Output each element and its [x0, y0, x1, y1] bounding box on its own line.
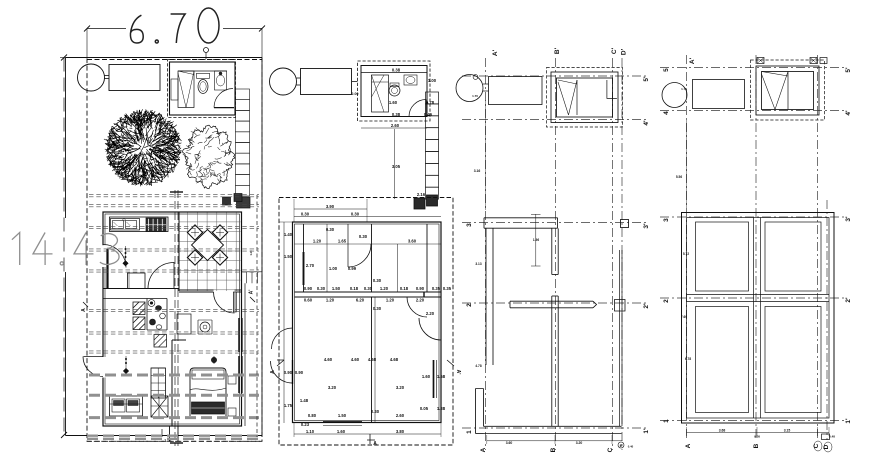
svg-text:1.60: 1.60: [389, 100, 398, 105]
svg-text:3.68: 3.68: [719, 429, 726, 433]
p2 door arc mid: [407, 297, 427, 317]
svg-text:3.90: 3.90: [326, 204, 335, 209]
svg-text:1.20: 1.20: [386, 298, 395, 303]
svg-text:1': 1': [845, 418, 852, 424]
mini dim living: [125, 356, 127, 372]
bath door arc: [214, 89, 233, 108]
p4 bathroom dashed box: [751, 60, 825, 120]
right wall window dark bar 2: [238, 356, 240, 393]
living sofa: [110, 396, 143, 416]
washing machine hatched 2: [133, 317, 145, 330]
svg-text:0.35: 0.35: [432, 286, 441, 291]
svg-text:1.20: 1.20: [249, 250, 253, 256]
svg-text:0.30: 0.30: [351, 212, 360, 217]
dimension 14.43 left: [63, 58, 65, 436]
svg-text:2.20: 2.20: [426, 311, 435, 316]
svg-text:1.75: 1.75: [284, 403, 293, 408]
interior wall bedroom: [171, 340, 173, 426]
svg-text:0.38: 0.38: [392, 112, 401, 117]
p3 bath door leaf: [576, 80, 578, 115]
dim 2.60 below bath: [361, 127, 427, 129]
p4 inner cell rects: [696, 222, 749, 291]
kitchen-hall door leaf: [173, 262, 175, 289]
p3 grid horizontals: [462, 75, 648, 77]
p3 foundation strip B upper stub: [551, 228, 553, 274]
svg-text:B': B': [554, 47, 561, 54]
svg-text:1.50: 1.50: [332, 286, 341, 291]
svg-text:1.70: 1.70: [472, 94, 478, 98]
svg-text:0.30: 0.30: [364, 286, 373, 291]
section line vertical pair: [174, 190, 176, 446]
svg-text:3.60: 3.60: [506, 441, 513, 445]
wc enclosure walls: [103, 298, 167, 300]
svg-text:A: A: [373, 441, 377, 447]
bath left radiator: [171, 79, 178, 100]
p3 septic rect: [489, 77, 543, 105]
svg-text:2': 2': [845, 297, 852, 303]
svg-text:3': 3': [643, 223, 650, 229]
outbuilding bathroom walls: [170, 62, 236, 115]
p2 porch arc: [272, 328, 293, 349]
svg-text:0.18: 0.18: [350, 286, 359, 291]
bath p2 bed: [372, 75, 389, 112]
kitchen bottom wall: [103, 288, 179, 290]
washing machine hatched 1: [133, 302, 145, 315]
svg-text:4.68: 4.68: [390, 357, 399, 362]
p4 bathroom double walls: [756, 66, 819, 115]
porch door arc west: [83, 357, 103, 377]
p2 bottom dim chain: [294, 433, 441, 435]
p4 septic rect: [693, 80, 745, 109]
porch door leaf west: [84, 356, 104, 358]
door arc kitchen west: [103, 245, 126, 268]
svg-text:3.20: 3.20: [576, 441, 583, 445]
text 6.70 stick font: [130, 15, 143, 43]
septic tank rect: [109, 65, 160, 91]
bath p2 door arc: [409, 100, 426, 117]
roof heavy gray dashed bands: [89, 374, 259, 377]
svg-text:5.56: 5.56: [676, 175, 682, 179]
svg-text:E: E: [620, 443, 623, 448]
p3 foundation strip left: [485, 228, 487, 365]
stairs hatch box bottom: [151, 396, 168, 417]
svg-text:1.96: 1.96: [533, 238, 539, 242]
section flag top: [170, 191, 183, 193]
west radiator dark bar: [106, 249, 108, 288]
svg-text:2: 2: [466, 303, 473, 307]
bed bedroom1: [190, 368, 226, 416]
svg-text:3.05: 3.05: [392, 164, 401, 169]
svg-text:3.20: 3.20: [328, 385, 337, 390]
p2 inner walls: [303, 224, 305, 292]
kitchen-hall door arc: [148, 263, 174, 289]
p3 small box grid3 right: [621, 220, 629, 228]
p2 door arc room1: [348, 244, 371, 267]
west wall door opening kitchen: [101, 245, 107, 267]
p3 bath step notch: [607, 80, 617, 98]
svg-text:1.20: 1.20: [313, 239, 322, 244]
svg-text:0.40: 0.40: [628, 445, 634, 449]
east walkway steps: [242, 271, 263, 273]
svg-text:0.35: 0.35: [443, 286, 452, 291]
bathroom p2 walls: [361, 66, 427, 117]
svg-text:3: 3: [466, 223, 473, 227]
svg-text:2.60: 2.60: [396, 413, 405, 418]
svg-text:1': 1': [643, 428, 650, 434]
p3 right wall thin: [619, 250, 621, 426]
svg-text:1.70: 1.70: [681, 87, 687, 91]
svg-text:0.18: 0.18: [400, 286, 409, 291]
svg-text:D': D': [621, 48, 628, 55]
p4 grid verticals: [686, 55, 688, 440]
p3 bottom dims: [487, 440, 623, 442]
svg-text:0.78: 0.78: [426, 100, 435, 105]
svg-text:0.30: 0.30: [373, 278, 382, 283]
svg-text:0.30: 0.30: [371, 409, 380, 414]
svg-text:A: A: [270, 370, 276, 374]
p4 bottom dims: [687, 432, 830, 434]
p2 section marks sides: [277, 360, 284, 366]
svg-text:0.90: 0.90: [416, 286, 425, 291]
house outer walls: [103, 212, 242, 426]
dark pad below stairs: [237, 197, 251, 208]
gate mark bottom: [169, 426, 171, 441]
bath sink: [215, 71, 227, 90]
svg-text:C: C: [607, 447, 614, 452]
p3 bathroom double walls: [551, 72, 618, 123]
septic circle p2: [270, 68, 297, 95]
dark pads p2: [414, 198, 425, 209]
svg-text:4.78: 4.78: [475, 364, 481, 368]
bathroom p2 dashed box: [358, 61, 431, 121]
kitchen stove dark block: [146, 218, 166, 232]
p3 right stub grid2: [615, 300, 626, 312]
svg-text:5': 5': [845, 67, 852, 73]
wardrobe shelves: [151, 368, 166, 398]
svg-text:0.38: 0.38: [392, 68, 401, 73]
p4 column markers top: [757, 58, 764, 64]
svg-text:4.68: 4.68: [368, 357, 377, 362]
bath p2 toilet: [389, 85, 400, 96]
kitchen counter top wall: [110, 217, 169, 232]
p3 bottom strip: [484, 425, 622, 427]
svg-text:A': A': [455, 370, 461, 375]
svg-text:4: 4: [663, 111, 670, 115]
svg-text:4.60: 4.60: [351, 357, 360, 362]
roof thin dashed line pairs: [89, 194, 259, 196]
tree 2 outline scribble: [182, 125, 235, 189]
svg-text:1.38: 1.38: [437, 406, 446, 411]
house p2 outer walls: [293, 222, 442, 423]
svg-text:0.30: 0.30: [326, 227, 335, 232]
dining chairs: [187, 225, 202, 240]
svg-text:2.70: 2.70: [306, 263, 315, 268]
svg-text:1.00: 1.00: [428, 78, 437, 83]
svg-text:0.30: 0.30: [373, 306, 382, 311]
svg-text:1.65: 1.65: [338, 239, 347, 244]
svg-text:1.68: 1.68: [437, 374, 446, 379]
svg-text:1.00: 1.00: [329, 266, 338, 271]
p2 section mark bottom: [367, 434, 375, 444]
bath door leaf: [214, 107, 234, 109]
p3 septic circle: [456, 75, 483, 102]
armchair person figure: [200, 322, 210, 332]
svg-text:0.05: 0.05: [420, 406, 429, 411]
svg-text:0.60: 0.60: [304, 298, 313, 303]
svg-text:1.60: 1.60: [337, 429, 346, 434]
veranda door arc: [214, 292, 235, 313]
svg-text:1.60: 1.60: [422, 374, 431, 379]
svg-text:0.30: 0.30: [359, 234, 368, 239]
svg-text:A: A: [480, 447, 487, 452]
bath bed: [178, 71, 194, 108]
svg-text:3: 3: [663, 218, 670, 222]
site dashed boundary: [87, 60, 262, 442]
svg-text:C': C': [611, 47, 618, 54]
svg-text:0.90: 0.90: [295, 370, 304, 375]
svg-text:A': A': [689, 57, 696, 64]
svg-text:3.60: 3.60: [408, 239, 417, 244]
svg-text:5': 5': [643, 76, 650, 82]
svg-text:1.20: 1.20: [380, 286, 389, 291]
p4 beam outer rect: [682, 213, 835, 424]
house p2 dashed boundary: [279, 198, 453, 446]
p2 entry door arc: [271, 361, 293, 383]
p2 left dim chain: [283, 222, 285, 423]
svg-text:A: A: [685, 443, 692, 448]
svg-text:3.15: 3.15: [784, 429, 791, 433]
p4 beam horizontal grid2: [687, 294, 830, 296]
p4 septic circle: [662, 83, 687, 108]
west wall door opening living: [101, 357, 107, 378]
stair strip p2: [426, 92, 439, 104]
svg-text:A': A': [249, 290, 255, 295]
svg-text:0.90: 0.90: [304, 286, 313, 291]
svg-text:0.80: 0.80: [308, 413, 317, 418]
svg-text:2.16: 2.16: [417, 192, 426, 197]
svg-text:B: B: [550, 447, 557, 452]
bath p2 sink: [404, 75, 417, 85]
svg-text:6.20: 6.20: [356, 298, 365, 303]
svg-text:4': 4': [845, 110, 852, 116]
veranda tiled floor grid: [179, 213, 241, 292]
garden stair strip right: [236, 89, 250, 100]
lamp above bed: [211, 357, 216, 362]
p2 windows: [323, 421, 362, 423]
svg-text:0.48: 0.48: [829, 435, 835, 439]
svg-text:3.80: 3.80: [396, 429, 405, 434]
svg-text:A': A': [492, 49, 499, 56]
svg-text:1.40: 1.40: [284, 232, 293, 237]
svg-text:B: B: [753, 443, 760, 448]
wc toilet circles: [148, 300, 155, 307]
p2 top dim chain: [294, 208, 367, 210]
svg-text:4': 4': [643, 120, 650, 126]
svg-text:0.99: 0.99: [348, 266, 357, 271]
svg-text:0.30: 0.30: [317, 286, 326, 291]
svg-text:A: A: [81, 308, 87, 312]
svg-text:3.13: 3.13: [475, 262, 481, 266]
lamp symbol under dimension: [204, 48, 209, 53]
p2 window left wall dark bar: [303, 252, 305, 285]
kitchen cabinet box: [128, 273, 146, 289]
svg-text:2.20: 2.20: [416, 298, 425, 303]
p2 dim line row upper: [295, 243, 442, 245]
svg-text:1.48: 1.48: [300, 398, 309, 403]
column pads above house: [223, 197, 231, 205]
bedside tables: [228, 376, 236, 384]
p3 foundation strip top: [484, 217, 558, 219]
p4 grid horizontals: [660, 67, 845, 69]
svg-text:5.72: 5.72: [683, 252, 689, 256]
svg-text:2.60: 2.60: [391, 123, 400, 128]
svg-text:2: 2: [663, 299, 670, 303]
p3 grid verticals: [485, 58, 487, 450]
svg-text:1.50: 1.50: [338, 413, 347, 418]
site fence solid boundary: [65, 58, 67, 219]
svg-text:3': 3': [845, 216, 852, 222]
svg-text:3.16: 3.16: [474, 169, 481, 173]
dining table diamond: [192, 230, 224, 261]
svg-text:3.20: 3.20: [396, 385, 405, 390]
svg-text:4.60: 4.60: [324, 357, 333, 362]
right wall window dark bar 1: [238, 318, 240, 352]
section flag bottom: [170, 442, 183, 444]
p2 door arc veranda: [419, 318, 441, 340]
svg-text:6.78: 6.78: [685, 357, 691, 361]
veranda door leaf gray bar: [233, 292, 236, 312]
p3 E bubble: [618, 442, 624, 448]
svg-text:5: 5: [663, 68, 670, 72]
p3 foundation strip grid2 horizontal: [510, 300, 593, 302]
p3 1.96 stub dim: [535, 214, 537, 266]
svg-text:1.20: 1.20: [326, 298, 335, 303]
svg-text:1.10: 1.10: [306, 429, 315, 434]
septic tank circle: [78, 64, 105, 91]
tree 1 dense scribble: [104, 109, 182, 186]
p3 foundation strip B lower: [551, 296, 553, 426]
p4 bath door leaf: [787, 72, 789, 110]
septic rect p2: [301, 69, 352, 95]
p3 bottom-left L wall: [476, 389, 484, 434]
hall cabinet white box: [177, 314, 191, 334]
p3 bathroom dashed box: [547, 68, 623, 128]
veranda left wall: [178, 212, 180, 291]
kitchen sink double tub: [111, 219, 140, 231]
mini dim kitchen: [125, 246, 127, 262]
roof edge dashed vertical right: [256, 195, 258, 437]
svg-text:0.90: 0.90: [284, 370, 293, 375]
dimension 6.70 top: [87, 28, 126, 30]
svg-text:0.30: 0.30: [301, 212, 310, 217]
p4 bottom right box: [822, 434, 830, 440]
text 14.43 stick font: [12, 233, 20, 266]
svg-text:1: 1: [663, 419, 670, 423]
svg-text:1: 1: [466, 430, 473, 434]
vertical dim 3.05: [394, 129, 396, 199]
bath toilet: [197, 73, 210, 78]
svg-text:7.60: 7.60: [681, 315, 687, 319]
svg-text:2': 2': [643, 303, 650, 309]
outbuilding bathroom dashed box: [168, 60, 236, 118]
hatch box cluster2 b striped: [154, 335, 167, 348]
svg-text:0.23: 0.23: [301, 422, 310, 427]
veranda bottom wall: [179, 289, 214, 291]
svg-text:1.50: 1.50: [284, 254, 293, 259]
p4 beam vertical B: [753, 218, 755, 419]
